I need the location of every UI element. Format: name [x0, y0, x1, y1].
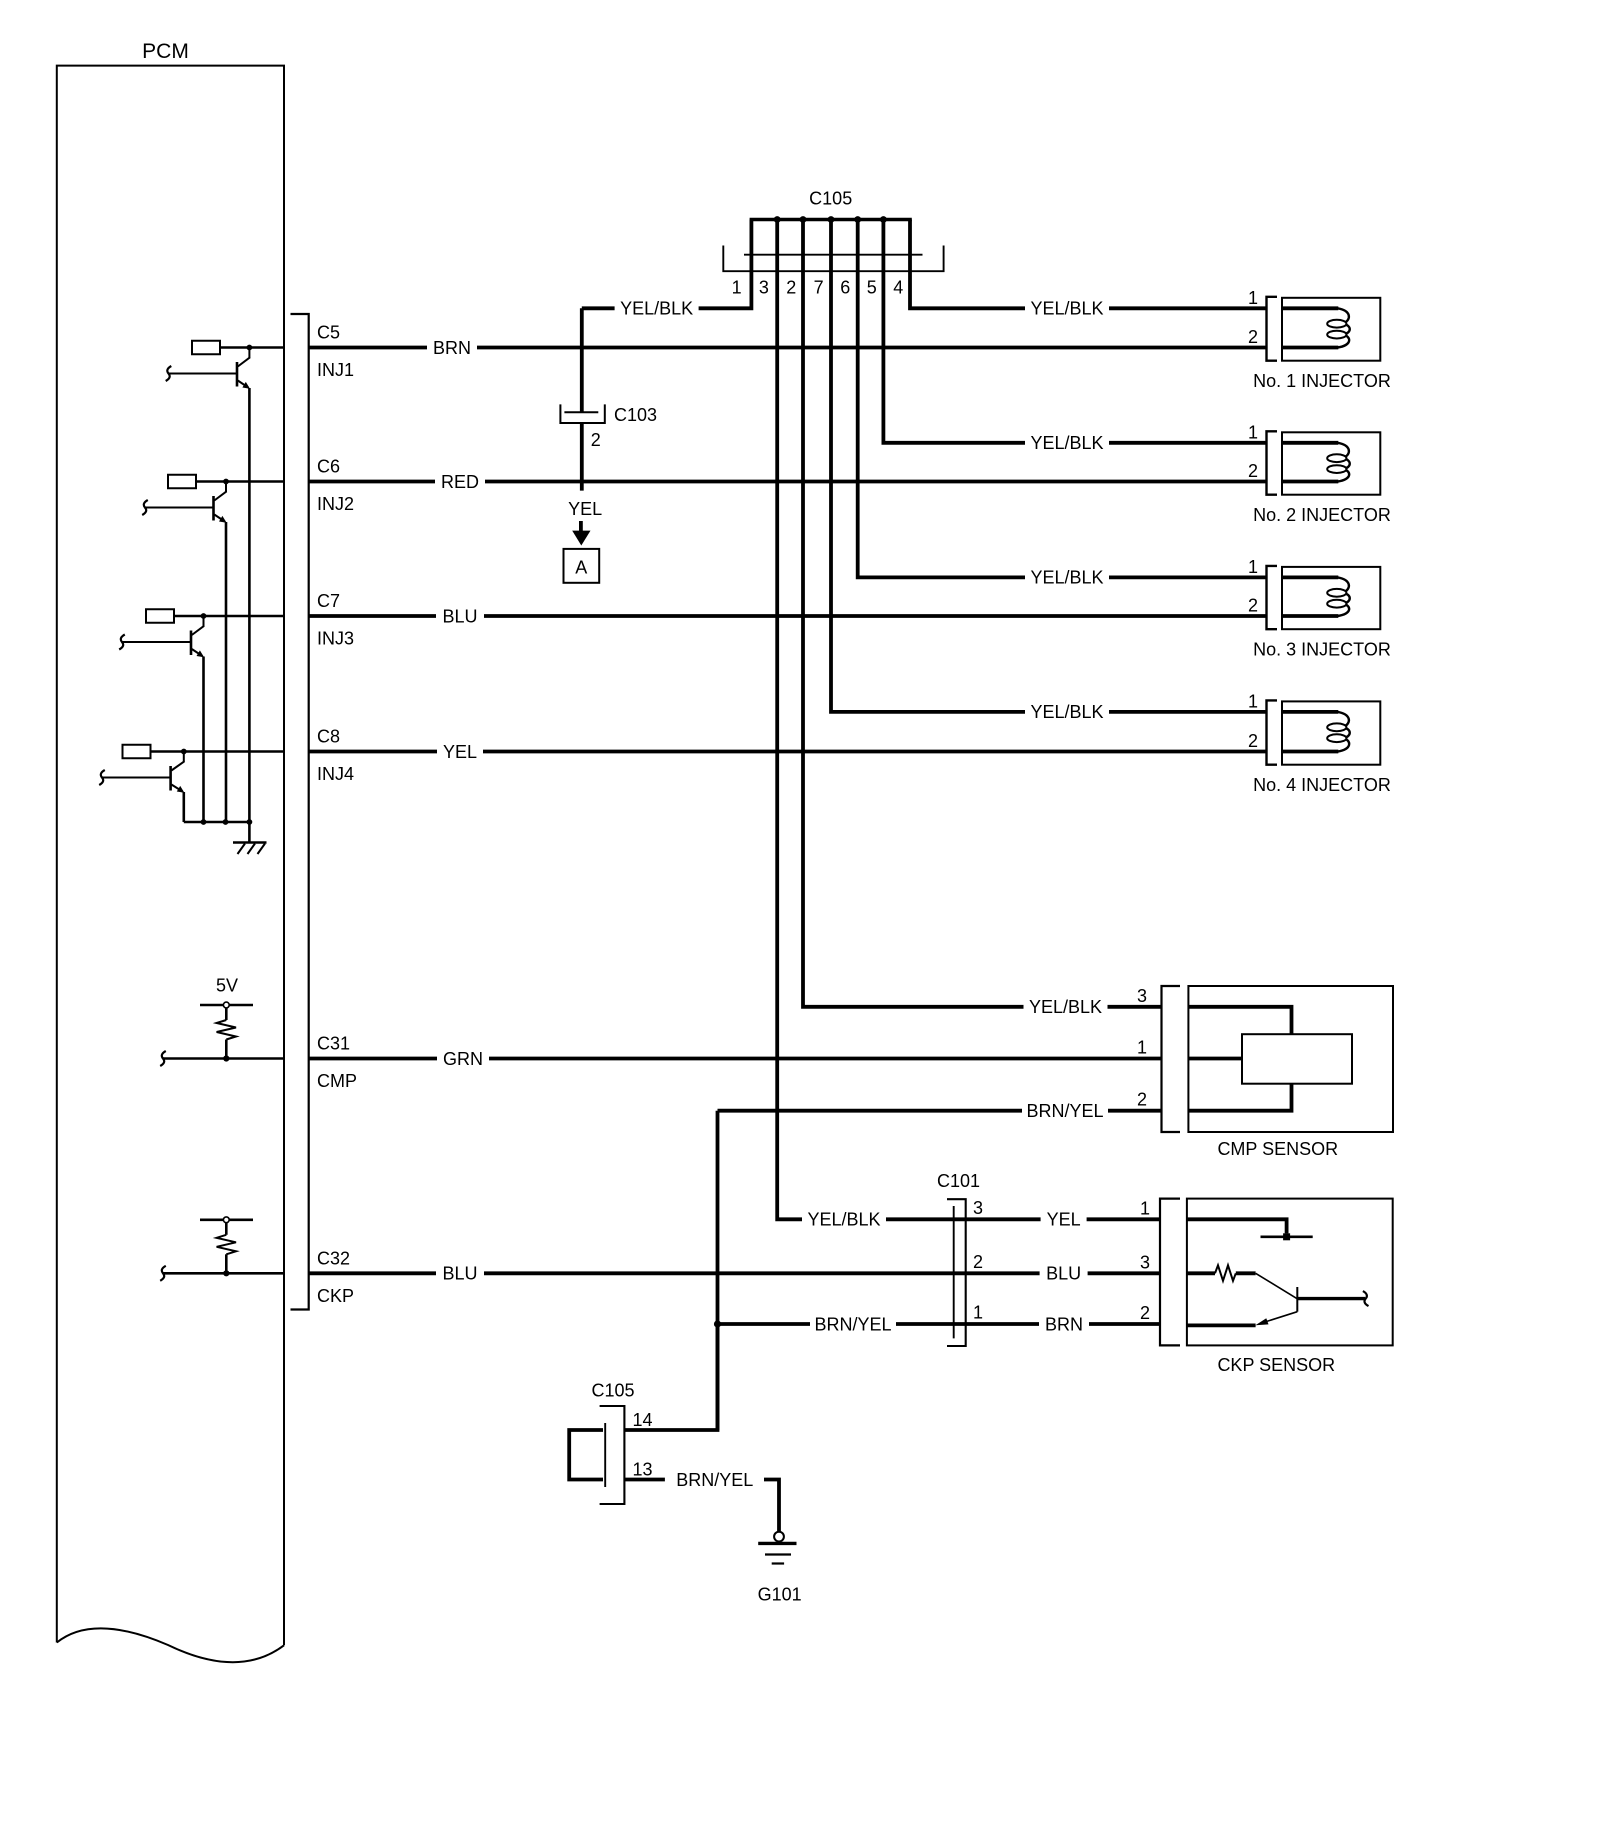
- pickup core bar (CKP): [1261, 1236, 1313, 1239]
- connector C105 body upper line: [744, 254, 923, 256]
- svg-text:1: 1: [732, 278, 742, 298]
- wire YEL/BLK down to C103: [580, 308, 584, 412]
- wire emitter Q1 down: [248, 388, 251, 822]
- svg-text:5V: 5V: [216, 976, 238, 996]
- svg-text:No. 3 INJECTOR: No. 3 INJECTOR: [1253, 639, 1391, 659]
- svg-text:YEL: YEL: [1047, 1210, 1081, 1230]
- svg-text:INJ1: INJ1: [317, 360, 354, 380]
- node bus junction x=803.0: [800, 216, 807, 223]
- svg-text:2: 2: [1248, 327, 1258, 347]
- svg-text:2: 2: [1140, 1303, 1150, 1323]
- wire CMP input inside PCM: [163, 1057, 284, 1060]
- resistor pull-up (CMP): [225, 1008, 228, 1020]
- squiggle CKP output end: [1363, 1291, 1369, 1306]
- wire pole piece to pin 2 (arrow): [1262, 1312, 1297, 1323]
- wire C105 pin 14 to BRN/YEL junction: [624, 1324, 717, 1430]
- wire C7 BLU (PCM to No.3 injector pin 2): [309, 614, 1267, 618]
- label YEL/BLK (CMP pin 3): [1024, 997, 1108, 1017]
- wire C32 BLU (PCM to CKP sensor pin 3): [309, 1271, 1160, 1275]
- label BLU (CKP pin 3): [1040, 1263, 1088, 1283]
- svg-text:INJ2: INJ2: [317, 494, 354, 514]
- svg-text:CKP: CKP: [317, 1286, 354, 1306]
- svg-text:C31: C31: [317, 1034, 350, 1054]
- svg-text:BRN/YEL: BRN/YEL: [1026, 1101, 1103, 1121]
- wire CKP pin 3 internal: [1187, 1271, 1215, 1275]
- svg-text:BRN/YEL: BRN/YEL: [676, 1470, 753, 1490]
- wire CKP input inside PCM: [163, 1272, 284, 1275]
- label RED: [435, 472, 485, 492]
- node pull-up junction (CKP): [223, 1270, 229, 1276]
- wire C31 GRN (PCM to CMP sensor pin 1): [309, 1057, 1162, 1061]
- svg-text:BRN: BRN: [433, 338, 471, 358]
- svg-text:YEL/BLK: YEL/BLK: [1030, 568, 1103, 588]
- label BRN/YEL (CMP pin 2): [1022, 1101, 1108, 1121]
- wire CMP pin 2 internal: [1188, 1084, 1291, 1111]
- wire C5 BRN (PCM to No.1 injector pin 2): [309, 346, 1267, 350]
- transistor Q3 (NPN, INJ3 driver): [203, 616, 205, 627]
- svg-text:1: 1: [1140, 1199, 1150, 1219]
- svg-text:C103: C103: [614, 405, 657, 425]
- wire injector 4 pin 1 internal: [1282, 710, 1338, 714]
- wire injector 3 pin 2 internal: [1282, 614, 1338, 618]
- svg-text:CKP SENSOR: CKP SENSOR: [1217, 1355, 1335, 1375]
- node emitter bus junction Q1: [247, 819, 253, 825]
- connector C105 bottom female half: [600, 1406, 625, 1504]
- svg-text:3: 3: [759, 278, 769, 298]
- squiggle base lead Q4: [99, 770, 105, 785]
- svg-text:C105: C105: [591, 1381, 634, 1401]
- label YEL: [437, 742, 483, 762]
- svg-text:1: 1: [1248, 691, 1258, 711]
- wire C8 YEL (PCM to No.4 injector pin 2): [309, 750, 1267, 754]
- svg-text:2: 2: [591, 430, 601, 450]
- CKP sensor box: [1187, 1199, 1393, 1346]
- svg-text:3: 3: [1140, 1253, 1150, 1273]
- wire emitter Q3 down: [202, 657, 205, 823]
- svg-text:INJ3: INJ3: [317, 629, 354, 649]
- svg-text:No. 1 INJECTOR: No. 1 INJECTOR: [1253, 371, 1391, 391]
- svg-text:PCM: PCM: [142, 40, 189, 63]
- svg-text:C8: C8: [317, 727, 340, 747]
- label GRN: [437, 1049, 489, 1069]
- node collector junction Q3: [201, 613, 207, 619]
- svg-text:1: 1: [1137, 1038, 1147, 1058]
- wire resistor R2 to PCM edge: [196, 480, 284, 483]
- svg-text:2: 2: [1248, 596, 1258, 616]
- wire CMP pin 3 internal: [1188, 1007, 1291, 1034]
- svg-text:C5: C5: [317, 323, 340, 343]
- wire injector 1 pin 2 internal: [1282, 346, 1338, 350]
- pole piece bar (CKP): [1296, 1287, 1298, 1312]
- connector C101 male half: [953, 1206, 955, 1338]
- connector bracket (No.2 injector): [1267, 431, 1278, 494]
- power rail (CKP pull-up): [200, 1219, 253, 1222]
- svg-text:2: 2: [1248, 461, 1258, 481]
- ground (PCM internal chassis ground): [233, 841, 267, 844]
- svg-text:No. 4 INJECTOR: No. 4 INJECTOR: [1253, 775, 1391, 795]
- squiggle base lead Q3: [119, 635, 125, 650]
- resistor R1 (INJ1 driver collector feed): [192, 341, 220, 355]
- connector C103 upper half (T-bar): [564, 411, 598, 413]
- wire BRN/YEL trunk down: [716, 1111, 720, 1430]
- node collector junction Q1: [247, 345, 253, 351]
- transistor Q1 (NPN, INJ1 driver): [248, 348, 250, 359]
- coil (No.1 injector solenoid): [1338, 308, 1350, 347]
- resistor R4 (INJ4 driver collector feed): [123, 745, 151, 759]
- label YEL (CKP pin 1): [1041, 1209, 1087, 1229]
- svg-text:BLU: BLU: [1046, 1264, 1081, 1284]
- svg-text:YEL/BLK: YEL/BLK: [807, 1210, 880, 1230]
- svg-text:C32: C32: [317, 1248, 350, 1268]
- svg-text:4: 4: [893, 278, 903, 298]
- wire injector 4 pin 2 internal: [1282, 750, 1338, 754]
- svg-text:1: 1: [1248, 422, 1258, 442]
- svg-text:1: 1: [1248, 288, 1258, 308]
- coil (CKP pickup winding): [1215, 1265, 1236, 1281]
- squiggle CKP input: [160, 1266, 166, 1281]
- label YEL/BLK (C101 pin 3): [802, 1209, 886, 1229]
- PCM connector bracket (pins C5-C32): [291, 314, 309, 1310]
- node emitter bus junction Q3: [201, 819, 207, 825]
- svg-text:G101: G101: [758, 1585, 802, 1605]
- svg-text:C101: C101: [937, 1171, 980, 1191]
- label YEL/BLK (No.3 injector): [1025, 567, 1109, 587]
- connector bracket (No.3 injector): [1267, 566, 1278, 629]
- svg-text:14: 14: [632, 1410, 652, 1430]
- svg-text:BLU: BLU: [442, 1264, 477, 1284]
- svg-text:1: 1: [1248, 557, 1258, 577]
- wire C105 pin 6 (YEL/BLK to No.3 injector pin 1): [858, 220, 1267, 578]
- wire CMP pin 1 internal: [1188, 1057, 1242, 1061]
- node collector junction Q2: [223, 479, 229, 485]
- wire injector 2 pin 2 internal: [1282, 480, 1338, 484]
- label BLU (CKP): [436, 1263, 484, 1283]
- transistor Q2 (NPN, INJ2 driver): [225, 482, 227, 493]
- connector C103 lower half (cup): [560, 404, 604, 423]
- wire BRN/YEL to ground: [764, 1480, 779, 1532]
- node collector junction Q4: [181, 749, 187, 755]
- wire resistor R4 to PCM edge: [151, 750, 285, 753]
- label YEL/BLK (No.4 injector): [1025, 702, 1109, 722]
- wire C105 pin 3 (YEL/BLK to C101 pin 3): [777, 220, 1160, 1220]
- squiggle CMP input: [160, 1051, 166, 1066]
- node pull-up junction (CMP): [223, 1055, 229, 1061]
- arrow to off-page A: [572, 531, 590, 546]
- wire injector 3 pin 1 internal: [1282, 576, 1338, 580]
- svg-text:1: 1: [973, 1303, 983, 1323]
- wire emitter Q4 down: [183, 792, 186, 822]
- wire C103 pin 2 down: [580, 423, 584, 491]
- PCM module box (open-bottom torn edge): [57, 66, 284, 1646]
- wire BRN/YEL to C101 pin 1: [718, 1322, 1161, 1326]
- node emitter bus junction Q2: [223, 819, 229, 825]
- label YEL/BLK (No.1 injector): [1025, 298, 1109, 318]
- svg-text:YEL/BLK: YEL/BLK: [1030, 299, 1103, 319]
- squiggle base lead Q2: [142, 500, 148, 515]
- node bus junction x=883.4: [880, 216, 887, 223]
- coil (No.4 injector solenoid): [1338, 712, 1350, 752]
- wire jumper loop pins 14-13: [569, 1430, 603, 1480]
- svg-text:YEL: YEL: [568, 499, 602, 519]
- No. 4 injector box: [1282, 701, 1380, 764]
- coil (No.2 injector solenoid): [1338, 443, 1350, 482]
- wire C6 RED (PCM to No.2 injector pin 2): [309, 480, 1267, 484]
- svg-text:C105: C105: [809, 189, 852, 209]
- svg-text:2: 2: [1248, 731, 1258, 751]
- connector bracket (No.1 injector): [1267, 297, 1278, 361]
- wire bus to ground: [248, 822, 251, 843]
- node bus junction x=857.7: [854, 216, 861, 223]
- connector C101 female half: [947, 1199, 966, 1346]
- svg-text:6: 6: [840, 278, 850, 298]
- svg-text:CMP SENSOR: CMP SENSOR: [1217, 1139, 1338, 1159]
- svg-text:C7: C7: [317, 591, 340, 611]
- wire CKP coil to pole piece: [1256, 1273, 1297, 1298]
- wire resistor R3 to PCM edge: [174, 615, 284, 618]
- label BLU: [436, 606, 484, 626]
- wire injector 1 pin 1 internal: [1282, 306, 1338, 310]
- node 5V terminal circle (CKP): [223, 1217, 229, 1223]
- node 5V terminal circle (CMP): [223, 1002, 229, 1008]
- node BRN/YEL junction: [714, 1320, 721, 1327]
- svg-text:RED: RED: [441, 472, 479, 492]
- wire C105 pin 5 (YEL/BLK to No.2 injector pin 1): [883, 220, 1266, 443]
- resistor R2 (INJ2 driver collector feed): [168, 475, 196, 489]
- wire C105 pin 4 (YEL/BLK to No.1 injector pin 1): [910, 220, 1267, 309]
- label YEL/BLK (No.2 injector): [1025, 433, 1109, 453]
- wire C105 pin 2 (YEL/BLK to CMP sensor pin 3): [803, 220, 1162, 1007]
- connector C105 body lower bracket: [723, 246, 943, 272]
- svg-text:A: A: [575, 558, 587, 578]
- ground G101 symbol: [758, 1542, 796, 1545]
- svg-text:BRN/YEL: BRN/YEL: [814, 1314, 891, 1334]
- wire BRN/YEL (CMP pin 2): [718, 1109, 1162, 1113]
- svg-text:INJ4: INJ4: [317, 764, 354, 784]
- wire C105 pin 13 (BRN/YEL to G101): [624, 1478, 665, 1482]
- connector bracket (CKP sensor): [1160, 1199, 1180, 1346]
- svg-text:2: 2: [1137, 1090, 1147, 1110]
- node bus junction x=777.2: [774, 216, 781, 223]
- wire common emitter bus: [184, 821, 250, 824]
- svg-text:BLU: BLU: [442, 606, 477, 626]
- label BRN (CKP pin 2): [1039, 1314, 1089, 1334]
- label BRN: [427, 338, 477, 358]
- svg-text:YEL/BLK: YEL/BLK: [1029, 997, 1102, 1017]
- svg-text:YEL/BLK: YEL/BLK: [1030, 702, 1103, 722]
- wire CKP output: [1297, 1297, 1365, 1300]
- resistor R3 (INJ3 driver collector feed): [146, 609, 174, 623]
- No. 1 injector box: [1282, 298, 1380, 361]
- svg-text:BRN: BRN: [1045, 1314, 1083, 1334]
- wire YEL arrow stub: [579, 521, 583, 531]
- off-page reference box A: [564, 549, 600, 583]
- wire CKP pin 1 internal: [1187, 1219, 1287, 1233]
- wire C105 pin 7 (YEL/BLK to No.4 injector pin 1): [831, 220, 1267, 712]
- No. 3 injector box: [1282, 567, 1380, 629]
- wire emitter Q2 down: [225, 522, 228, 822]
- svg-text:3: 3: [973, 1198, 983, 1218]
- label BRN/YEL (C101 pin 1): [810, 1314, 896, 1334]
- label YEL/BLK (pin 1): [615, 298, 699, 318]
- svg-text:7: 7: [814, 278, 824, 298]
- svg-text:5: 5: [867, 278, 877, 298]
- power rail (CMP pull-up): [200, 1004, 253, 1007]
- coil (No.3 injector solenoid): [1338, 577, 1350, 616]
- svg-text:YEL: YEL: [443, 742, 477, 762]
- wire CKP pin 2 internal: [1187, 1324, 1256, 1328]
- wire injector 2 pin 1 internal: [1282, 441, 1338, 445]
- ground G101 terminal circle: [774, 1532, 784, 1542]
- connector bracket (No.4 injector): [1267, 700, 1278, 764]
- CMP sensor box: [1188, 986, 1393, 1132]
- No. 2 injector box: [1282, 432, 1380, 494]
- svg-text:13: 13: [632, 1460, 652, 1480]
- node bus junction x=831.0: [828, 216, 835, 223]
- svg-text:2: 2: [786, 278, 796, 298]
- CMP sensor element box: [1242, 1034, 1352, 1084]
- svg-text:2: 2: [973, 1252, 983, 1272]
- svg-text:YEL/BLK: YEL/BLK: [1030, 433, 1103, 453]
- wire C105 bus bar: [750, 218, 912, 222]
- svg-text:3: 3: [1137, 986, 1147, 1006]
- svg-text:GRN: GRN: [443, 1049, 483, 1069]
- svg-text:YEL/BLK: YEL/BLK: [620, 299, 693, 319]
- wire C105 pin 1 (YEL/BLK to C103): [582, 220, 752, 309]
- connector C105 bottom male half: [604, 1423, 606, 1487]
- transistor Q4 (NPN, INJ4 driver): [183, 752, 185, 763]
- connector bracket (CMP sensor): [1162, 986, 1181, 1132]
- svg-text:C6: C6: [317, 457, 340, 477]
- resistor pull-up (CKP): [225, 1223, 228, 1235]
- wire resistor R1 to PCM edge: [220, 346, 284, 349]
- svg-text:No. 2 INJECTOR: No. 2 INJECTOR: [1253, 505, 1391, 525]
- svg-text:CMP: CMP: [317, 1071, 357, 1091]
- squiggle base lead Q1: [166, 366, 172, 381]
- label BRN/YEL (ground lead): [672, 1470, 758, 1490]
